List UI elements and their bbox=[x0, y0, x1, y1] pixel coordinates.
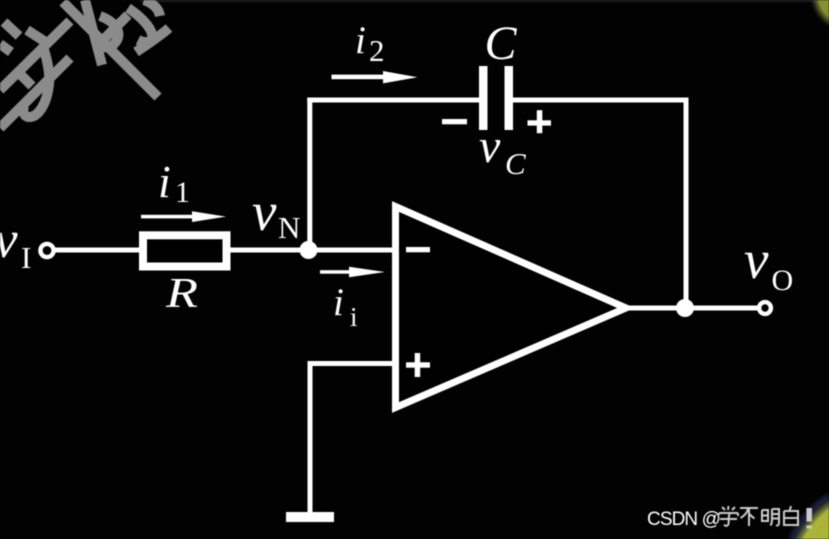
CSDN watermark text bbox=[647, 506, 809, 530]
院 char strokes bbox=[63, 2, 158, 97]
avatar blob bottom right navy rim bbox=[792, 497, 829, 539]
svg-text:O: O bbox=[772, 264, 794, 297]
wire feedback left vertical bbox=[307, 98, 312, 253]
arrow ii bbox=[320, 267, 385, 278]
学 small bbox=[719, 506, 738, 526]
wire feedback right vertical bbox=[684, 98, 689, 311]
resistor R body bbox=[143, 235, 227, 266]
svg-text:v: v bbox=[744, 229, 769, 290]
svg-text:1: 1 bbox=[175, 176, 190, 209]
node vN junction dot bbox=[300, 241, 318, 259]
op-amp non-inverting input plus symbol bbox=[406, 353, 430, 377]
白 small bbox=[784, 506, 798, 525]
arrow i2 bbox=[332, 71, 418, 83]
hand drawn 学不明白 ！ bbox=[719, 506, 809, 529]
wire input to resistor bbox=[54, 248, 142, 253]
wire output bbox=[628, 306, 758, 311]
svg-text:C: C bbox=[505, 146, 526, 181]
terminal vO output open circle bbox=[759, 302, 771, 314]
wire node to op-amp inverting input bbox=[307, 248, 394, 253]
不 small bbox=[740, 508, 758, 526]
avatar blob bottom right bbox=[777, 477, 829, 539]
svg-text:N: N bbox=[278, 210, 300, 245]
svg-text:i: i bbox=[355, 19, 366, 62]
svg-text:i: i bbox=[158, 156, 171, 207]
svg-text:2: 2 bbox=[369, 33, 385, 68]
op-amp U1 triangle bbox=[396, 207, 627, 408]
terminal vI input open circle bbox=[40, 244, 53, 257]
svg-text:R: R bbox=[165, 271, 198, 317]
svg-text:v: v bbox=[252, 181, 277, 242]
wire non-inverting input bbox=[310, 364, 394, 513]
arrow i1 bbox=[141, 211, 226, 222]
avatar blob top right bbox=[808, 0, 829, 34]
faint top edge line bbox=[140, 0, 829, 2]
svg-text:v: v bbox=[0, 211, 18, 269]
学 char strokes bbox=[4, 22, 19, 36]
svg-text:i: i bbox=[333, 281, 344, 324]
capacitor plus polarity sign bbox=[528, 110, 552, 133]
svg-text:CSDN @: CSDN @ bbox=[647, 509, 720, 530]
node output junction dot bbox=[676, 299, 694, 317]
wire feedback top right segment bbox=[511, 98, 689, 103]
svg-text:I: I bbox=[21, 240, 31, 275]
wire resistor to node vN bbox=[230, 248, 309, 253]
svg-text:v: v bbox=[479, 120, 501, 173]
watermark 学院 (gray rotated CJK watermark, hand drawn) bbox=[0, 0, 169, 128]
svg-text:i: i bbox=[350, 302, 358, 332]
wire feedback top left segment bbox=[307, 98, 481, 103]
capacitor minus polarity sign bbox=[442, 119, 467, 124]
capacitor C plates bbox=[479, 66, 513, 130]
ground bbox=[286, 512, 334, 522]
明 small bbox=[762, 509, 779, 526]
op-amp inverting input minus symbol bbox=[406, 247, 430, 252]
svg-text:C: C bbox=[485, 17, 518, 70]
！ bbox=[806, 508, 812, 529]
